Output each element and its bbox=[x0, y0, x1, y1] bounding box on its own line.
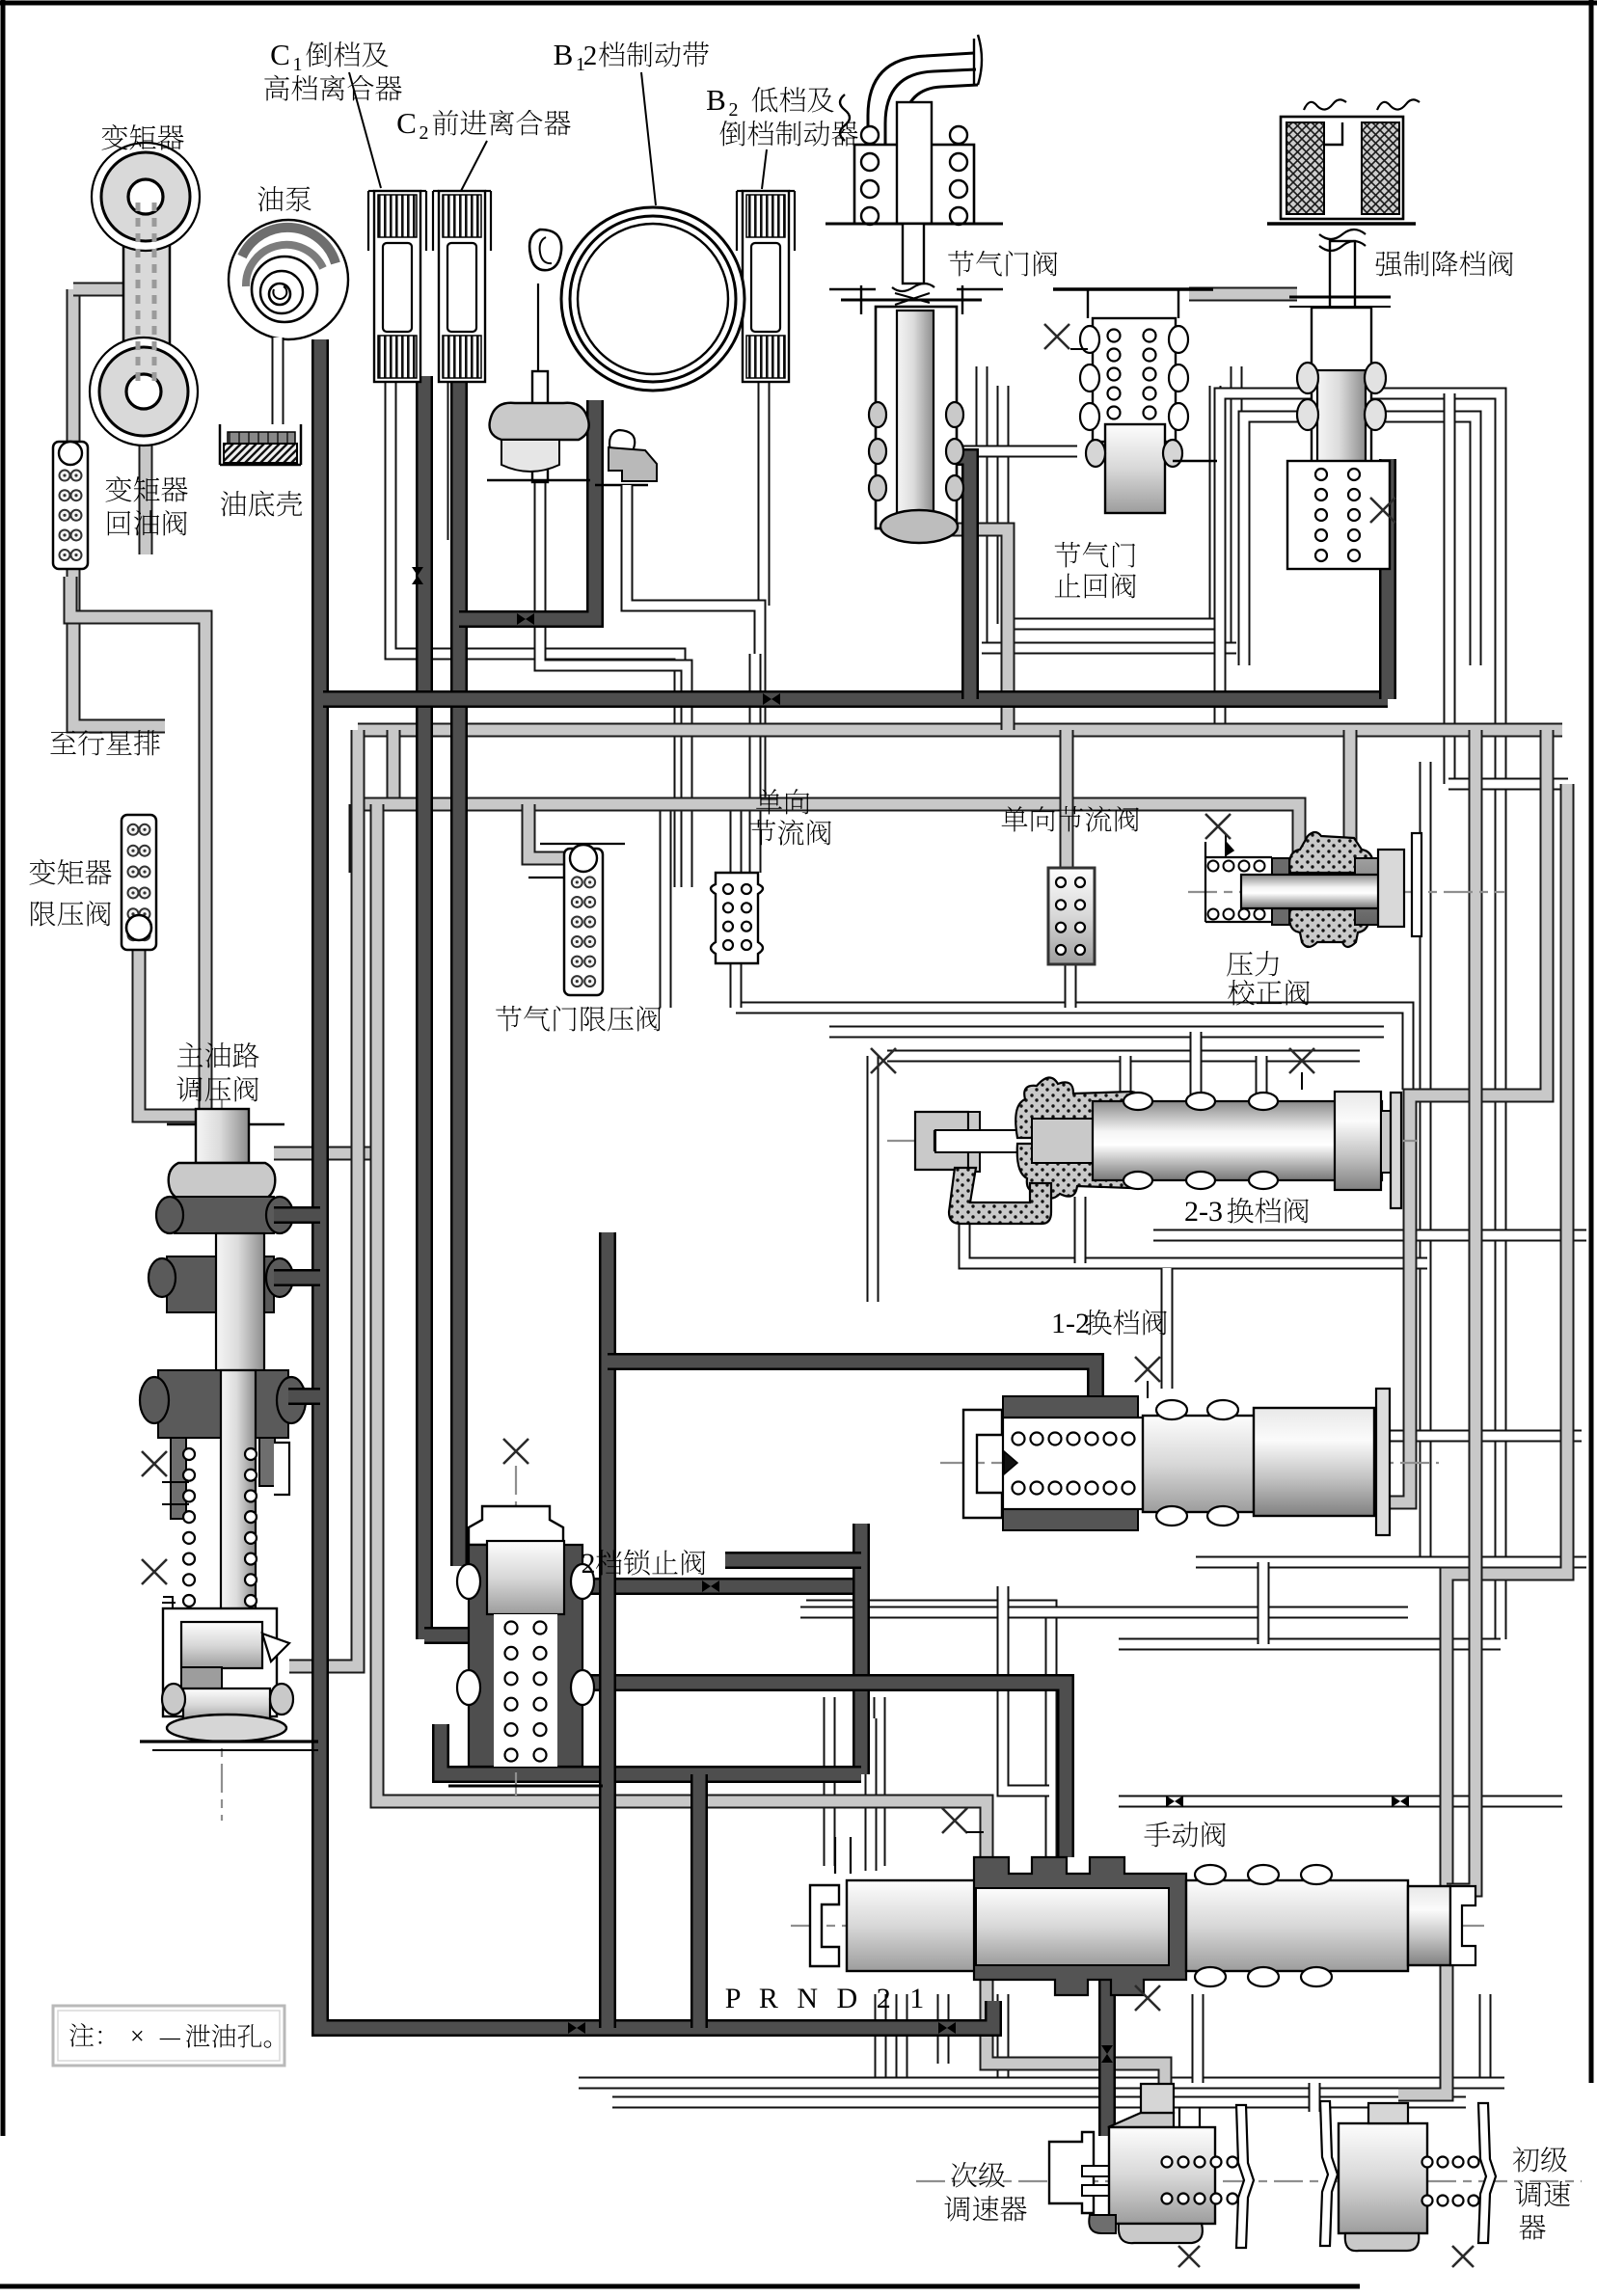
svg-text:C: C bbox=[396, 106, 417, 140]
svg-text:B: B bbox=[554, 38, 574, 71]
svg-text:2: 2 bbox=[583, 41, 598, 71]
svg-text:1-2: 1-2 bbox=[1051, 1308, 1090, 1339]
svg-text:1: 1 bbox=[293, 54, 303, 75]
svg-text:P R N D 2 1: P R N D 2 1 bbox=[725, 1983, 930, 2014]
svg-text:2: 2 bbox=[582, 1548, 596, 1580]
svg-text:2: 2 bbox=[729, 99, 739, 121]
svg-text:×: × bbox=[130, 2022, 145, 2050]
svg-text:2: 2 bbox=[420, 122, 429, 144]
svg-text:2-3: 2-3 bbox=[1184, 1196, 1223, 1228]
svg-text:B: B bbox=[706, 83, 726, 117]
svg-text:C: C bbox=[270, 38, 290, 71]
